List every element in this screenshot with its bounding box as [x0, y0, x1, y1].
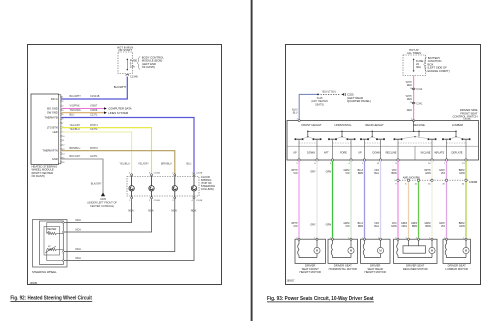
heater inner box: [44, 227, 60, 256]
svg-text:4: 4: [129, 173, 130, 175]
wire WHT/VIO front height up: [298, 161, 300, 239]
svg-text:OR START: OR START: [118, 48, 132, 52]
switch section labels: [301, 123, 463, 127]
wire YEL/BLU to clockspring: [61, 132, 131, 174]
connector arrow C325: [341, 93, 344, 96]
thermistor arrow: [45, 246, 56, 252]
svg-text:VIO: VIO: [293, 172, 297, 175]
fuse 22 symbol: [413, 59, 414, 72]
svg-text:4: 4: [192, 200, 193, 202]
svg-text:BLK/LT BLU: BLK/LT BLU: [323, 90, 337, 93]
svg-text:NCA: NCA: [148, 210, 154, 213]
wire BLU/WHT fuse to module pin 1: [60, 77, 127, 100]
svg-text:ORG: ORG: [402, 225, 408, 228]
svg-text:DRIVER: DRIVER: [370, 263, 380, 267]
wire YEL/GRY to clockspring: [61, 128, 151, 174]
svg-text:HEIGHT MOTOR: HEIGHT MOTOR: [365, 270, 386, 274]
svg-text:HEIGHT MOTOR: HEIGHT MOTOR: [300, 270, 321, 274]
svg-text:C204A: C204A: [196, 172, 203, 175]
svg-text:RECLINE: RECLINE: [413, 123, 425, 127]
svg-text:RED: RED: [407, 98, 412, 101]
wire GRY front height down: [316, 161, 318, 239]
svg-text:10A: 10A: [130, 65, 135, 69]
inline connector C312: [412, 88, 415, 90]
svg-text:THERM RTN: THERM RTN: [42, 149, 57, 153]
wire clockspring1 to heater: [63, 199, 131, 223]
svg-text:GRN: GRN: [425, 172, 431, 175]
heated steering wheel module box: [31, 94, 59, 165]
svg-text:G305: G305: [100, 198, 107, 201]
svg-text:2: 2: [172, 173, 173, 175]
svg-text:LED: LED: [53, 130, 58, 134]
svg-text:C2SF1B: C2SF1B: [90, 95, 100, 98]
contact pair 299/317: [295, 138, 297, 140]
svg-text:NCA: NCA: [191, 210, 197, 213]
svg-text:C2372: C2372: [90, 128, 98, 131]
svg-text:DRIVER: DRIVER: [305, 263, 315, 267]
svg-text:COLUMN): COLUMN): [201, 187, 214, 191]
svg-text:BRN/BLU: BRN/BLU: [70, 147, 81, 150]
svg-text:SEATS): SEATS): [315, 103, 324, 106]
svg-text:LUMBAR MOTOR: LUMBAR MOTOR: [445, 267, 467, 271]
fuse F22 dashed box (battery junction box): [403, 55, 426, 76]
svg-text:30A: 30A: [416, 65, 421, 69]
wire clockspring3 to heater: [63, 199, 175, 252]
svg-text:DEFLATE: DEFLATE: [451, 152, 462, 155]
svg-text:BLU/WHT: BLU/WHT: [70, 95, 82, 98]
svg-text:103051: 103051: [30, 282, 39, 285]
svg-text:IGN A: IGN A: [51, 97, 58, 101]
svg-text:RH371: RH371: [90, 124, 98, 127]
wire GRN/ORG recliner sensor: [408, 181, 410, 239]
svg-text:380917: 380917: [287, 280, 296, 283]
wire GRN horizontal aft: [332, 161, 334, 239]
wire BRN/BLU to clockspring: [61, 151, 175, 174]
svg-text:BRN: BRN: [358, 172, 363, 175]
dashed continuation to C325: [318, 93, 341, 95]
wire BLK/LT BLU to C325: [299, 94, 318, 120]
svg-text:LINES SYSTEM: LINES SYSTEM: [108, 111, 129, 115]
contact pair 364.5/380.5: [360, 138, 362, 140]
svg-text:DOWN: DOWN: [307, 152, 315, 155]
switch top pins: [298, 120, 414, 122]
svg-text:DRIVER SEAT: DRIVER SEAT: [448, 263, 466, 267]
module connector strip: [58, 95, 61, 164]
switch label row: [287, 145, 479, 147]
svg-text:FRONT HEIGHT: FRONT HEIGHT: [301, 123, 321, 127]
svg-text:OF DASH): OF DASH): [32, 174, 45, 178]
svg-text:VIO: VIO: [441, 225, 445, 228]
clockspring dashed box: [127, 177, 199, 197]
svg-text:BLU: BLU: [374, 172, 379, 175]
svg-text:FORE: FORE: [340, 152, 347, 155]
svg-text:14: 14: [62, 153, 64, 155]
right figure frame: [286, 45, 481, 285]
svg-text:YEL/GRY: YEL/GRY: [138, 162, 149, 165]
wire GRN/VIO horizontal fore: [350, 161, 352, 239]
svg-text:V2868: V2868: [90, 109, 98, 112]
svg-text:C234B: C234B: [130, 75, 138, 78]
wire WHT/GRN recline: [431, 161, 433, 239]
svg-text:REAR HEIGHT: REAR HEIGHT: [365, 123, 384, 127]
switch bottom pins: [298, 159, 467, 161]
contact pair 398/432: [394, 138, 396, 140]
fuse 9 symbol: [127, 59, 128, 70]
svg-text:AFT: AFT: [324, 152, 329, 155]
svg-text:ALL TIMES: ALL TIMES: [407, 51, 421, 55]
svg-text:CENTER CONSOLE): CENTER CONSOLE): [90, 205, 114, 208]
clockspring top pins: [131, 174, 195, 176]
svg-text:10: 10: [62, 136, 64, 138]
svg-text:GRN: GRN: [459, 225, 465, 228]
svg-text:7: 7: [62, 123, 63, 125]
wire BRN/GRN lumbar deflate: [465, 161, 467, 239]
svg-text:16: 16: [62, 162, 64, 164]
svg-text:RED: RED: [407, 109, 412, 112]
svg-text:STEERING WHEEL: STEERING WHEEL: [32, 270, 57, 274]
svg-text:OF DASH): OF DASH): [142, 65, 155, 69]
svg-text:LUMBAR: LUMBAR: [452, 123, 463, 127]
svg-text:Fig. 92: Heated Steering Wheel: Fig. 92: Heated Steering Wheel Circuit: [10, 296, 92, 302]
svg-text:C3006B: C3006B: [469, 182, 478, 184]
svg-text:NCA: NCA: [172, 210, 178, 213]
arrow computer data 2: [104, 111, 107, 114]
heater pin bumps: [62, 222, 64, 262]
svg-text:UP: UP: [358, 152, 362, 155]
NCA labels near heater: [76, 219, 82, 260]
page divider: [251, 0, 253, 321]
svg-text:GRN: GRN: [391, 225, 397, 228]
svg-text:BRN: BRN: [412, 225, 417, 228]
svg-text:R2: R2: [48, 246, 50, 248]
lower wire colour labels: [291, 222, 465, 228]
ground G305: [101, 192, 105, 196]
svg-text:NCA: NCA: [76, 219, 82, 222]
svg-text:12: 12: [62, 145, 64, 147]
svg-text:C204B: C204B: [154, 200, 161, 202]
svg-text:GRN: GRN: [326, 170, 332, 173]
wire clockspring2 to heater: [63, 199, 151, 232]
svg-text:INFLATE: INFLATE: [434, 152, 444, 155]
svg-text:GRY: GRY: [310, 224, 316, 227]
BCM label: [137, 57, 140, 70]
motor driver seat recliner: [394, 239, 438, 263]
svg-text:YEL/BLU: YEL/BLU: [70, 128, 80, 131]
svg-text:GRY: GRY: [310, 170, 316, 173]
svg-text:AWD (VIO/GRN): AWD (VIO/GRN): [403, 176, 420, 179]
svg-text:1: 1: [62, 97, 63, 99]
upper wire colour labels: [291, 169, 465, 175]
svg-text:BRN: BRN: [425, 225, 430, 228]
svg-text:SW GND: SW GND: [47, 111, 58, 115]
svg-text:BLK/GRY: BLK/GRY: [91, 183, 102, 186]
motor driver seat rear height: [361, 239, 391, 263]
module pin numbers: [62, 97, 64, 164]
svg-text:TAN/ORG: TAN/ORG: [70, 109, 81, 112]
motor driver seat lumbar: [443, 239, 471, 263]
svg-text:BRN: BRN: [391, 172, 396, 175]
svg-text:HORIZONTAL: HORIZONTAL: [334, 123, 352, 127]
svg-text:SEAT FRONT: SEAT FRONT: [302, 267, 319, 271]
wire GRY/VIO lumbar inflate: [446, 161, 448, 239]
svg-text:LTG BTN: LTG BTN: [47, 126, 58, 130]
motor driver seat front height: [295, 239, 326, 263]
wire GRN/BRN recliner sensor: [418, 181, 420, 239]
svg-text:RECLINE: RECLINE: [386, 152, 397, 155]
svg-text:ENGINE COMPT): ENGINE COMPT): [428, 69, 450, 73]
recliner sensor block: [403, 246, 426, 253]
svg-text:BLU: BLU: [70, 114, 75, 117]
svg-text:VIO: VIO: [441, 172, 445, 175]
svg-text:6: 6: [62, 118, 63, 120]
svg-text:THERM FB: THERM FB: [44, 115, 58, 119]
svg-text:RED: RED: [407, 84, 412, 87]
svg-text:2: 2: [62, 101, 63, 103]
svg-text:4: 4: [62, 110, 63, 112]
svg-text:C204B: C204B: [196, 200, 203, 202]
svg-text:COMPUTER DATA: COMPUTER DATA: [108, 107, 132, 111]
svg-text:UP: UP: [293, 152, 297, 155]
svg-text:YEL/BLU: YEL/BLU: [120, 162, 130, 165]
svg-text:BLU: BLU: [374, 225, 379, 228]
svg-text:C2371: C2371: [90, 114, 98, 117]
battery junction box label: [424, 57, 427, 72]
svg-text:11: 11: [62, 140, 64, 142]
svg-text:HORIZONTAL MOTOR: HORIZONTAL MOTOR: [329, 267, 357, 271]
svg-text:C204A: C204A: [154, 172, 161, 175]
inline connector row C3006B: [395, 179, 469, 181]
clockspring coils: [129, 176, 197, 197]
svg-text:NCA: NCA: [76, 257, 82, 260]
wire BLU to clockspring pin 4: [61, 118, 194, 174]
svg-text:3: 3: [172, 200, 173, 202]
svg-text:GND: GND: [52, 157, 58, 161]
module pin labels: [42, 97, 58, 161]
svg-text:QUARTER PANEL): QUARTER PANEL): [347, 99, 371, 103]
arrow computer data 1: [104, 107, 107, 110]
svg-text:GRN: GRN: [459, 172, 465, 175]
wire WHT/RED fuse to switch: [413, 76, 415, 121]
module connector pin bumps: [60, 96, 62, 163]
wire TAN/ORG computer-data: [61, 112, 104, 114]
NCA labels under clockspring: [128, 210, 196, 213]
fuse F9 dashed box (BCM): [118, 52, 133, 74]
svg-text:G2371: G2371: [90, 155, 98, 158]
svg-text:5: 5: [62, 114, 63, 116]
svg-text:GRN: GRN: [326, 224, 332, 227]
seat control switch box: [287, 121, 479, 161]
wire clockspring4 to heater: [63, 199, 194, 261]
svg-text:C312: C312: [416, 88, 423, 91]
svg-text:RH372: RH372: [90, 147, 98, 150]
motor driver seat horizontal: [328, 239, 358, 263]
svg-text:SIG GND: SIG GND: [47, 106, 58, 110]
svg-text:BLU/WHT: BLU/WHT: [114, 85, 127, 89]
contact pair 446.5/466: [442, 138, 444, 140]
svg-text:BLU: BLU: [293, 111, 298, 114]
svg-text:1: 1: [129, 200, 130, 202]
svg-text:BRN/BLU: BRN/BLU: [161, 162, 172, 165]
svg-text:Fig. 93: Power Seats Circuit,: Fig. 93: Power Seats Circuit, 10-Way Dri…: [267, 296, 374, 302]
svg-text:V2867: V2867: [90, 105, 98, 108]
svg-text:SEAT REAR: SEAT REAR: [368, 267, 383, 271]
switch output drops: [299, 140, 466, 159]
svg-text:VIO/PNK: VIO/PNK: [70, 105, 80, 108]
svg-text:VIO: VIO: [293, 225, 297, 228]
svg-text:NCA: NCA: [128, 210, 134, 213]
switch power bus: [308, 121, 456, 137]
clockspring bottom pins: [131, 197, 195, 199]
svg-text:2: 2: [149, 200, 150, 202]
svg-text:DRIVER SEAT: DRIVER SEAT: [334, 263, 352, 267]
svg-text:VIO: VIO: [345, 225, 349, 228]
connector C234B below fuse box: [126, 74, 129, 76]
left figure frame: [28, 45, 222, 285]
svg-text:1: 1: [192, 173, 193, 175]
svg-text:BRN: BRN: [358, 225, 363, 228]
svg-text:VIO: VIO: [345, 172, 349, 175]
svg-text:NCA: NCA: [76, 228, 82, 231]
svg-text:INCLINE: INCLINE: [421, 152, 431, 155]
svg-text:3: 3: [149, 173, 150, 175]
wire BLU/BRN rear height up: [364, 161, 366, 239]
heater module box: [40, 221, 64, 265]
splice dot S148: [317, 94, 319, 96]
wire VIO/BLU rear height down: [380, 161, 382, 239]
contact pair 332.5/351: [328, 138, 330, 140]
svg-text:C341: C341: [416, 102, 423, 105]
svg-text:YEL/GRY: YEL/GRY: [70, 124, 81, 127]
svg-text:DRIVER SEAT: DRIVER SEAT: [406, 263, 424, 267]
svg-text:3: 3: [62, 105, 63, 107]
wire PNK computer-data: [61, 108, 104, 110]
svg-text:NCA: NCA: [76, 248, 82, 251]
wire BLK/GRY to ground: [61, 159, 103, 193]
svg-text:DOWN: DOWN: [373, 152, 381, 155]
wire VIO/BRN recline: [397, 161, 399, 239]
svg-text:RECLINER MOTOR: RECLINER MOTOR: [403, 267, 428, 271]
inline connector C341: [412, 102, 415, 104]
steering wheel outer box: [33, 220, 68, 268]
svg-text:BLU: BLU: [187, 162, 192, 165]
svg-text:BLK/GRY: BLK/GRY: [70, 155, 81, 158]
svg-text:HEATER: HEATER: [47, 228, 56, 231]
